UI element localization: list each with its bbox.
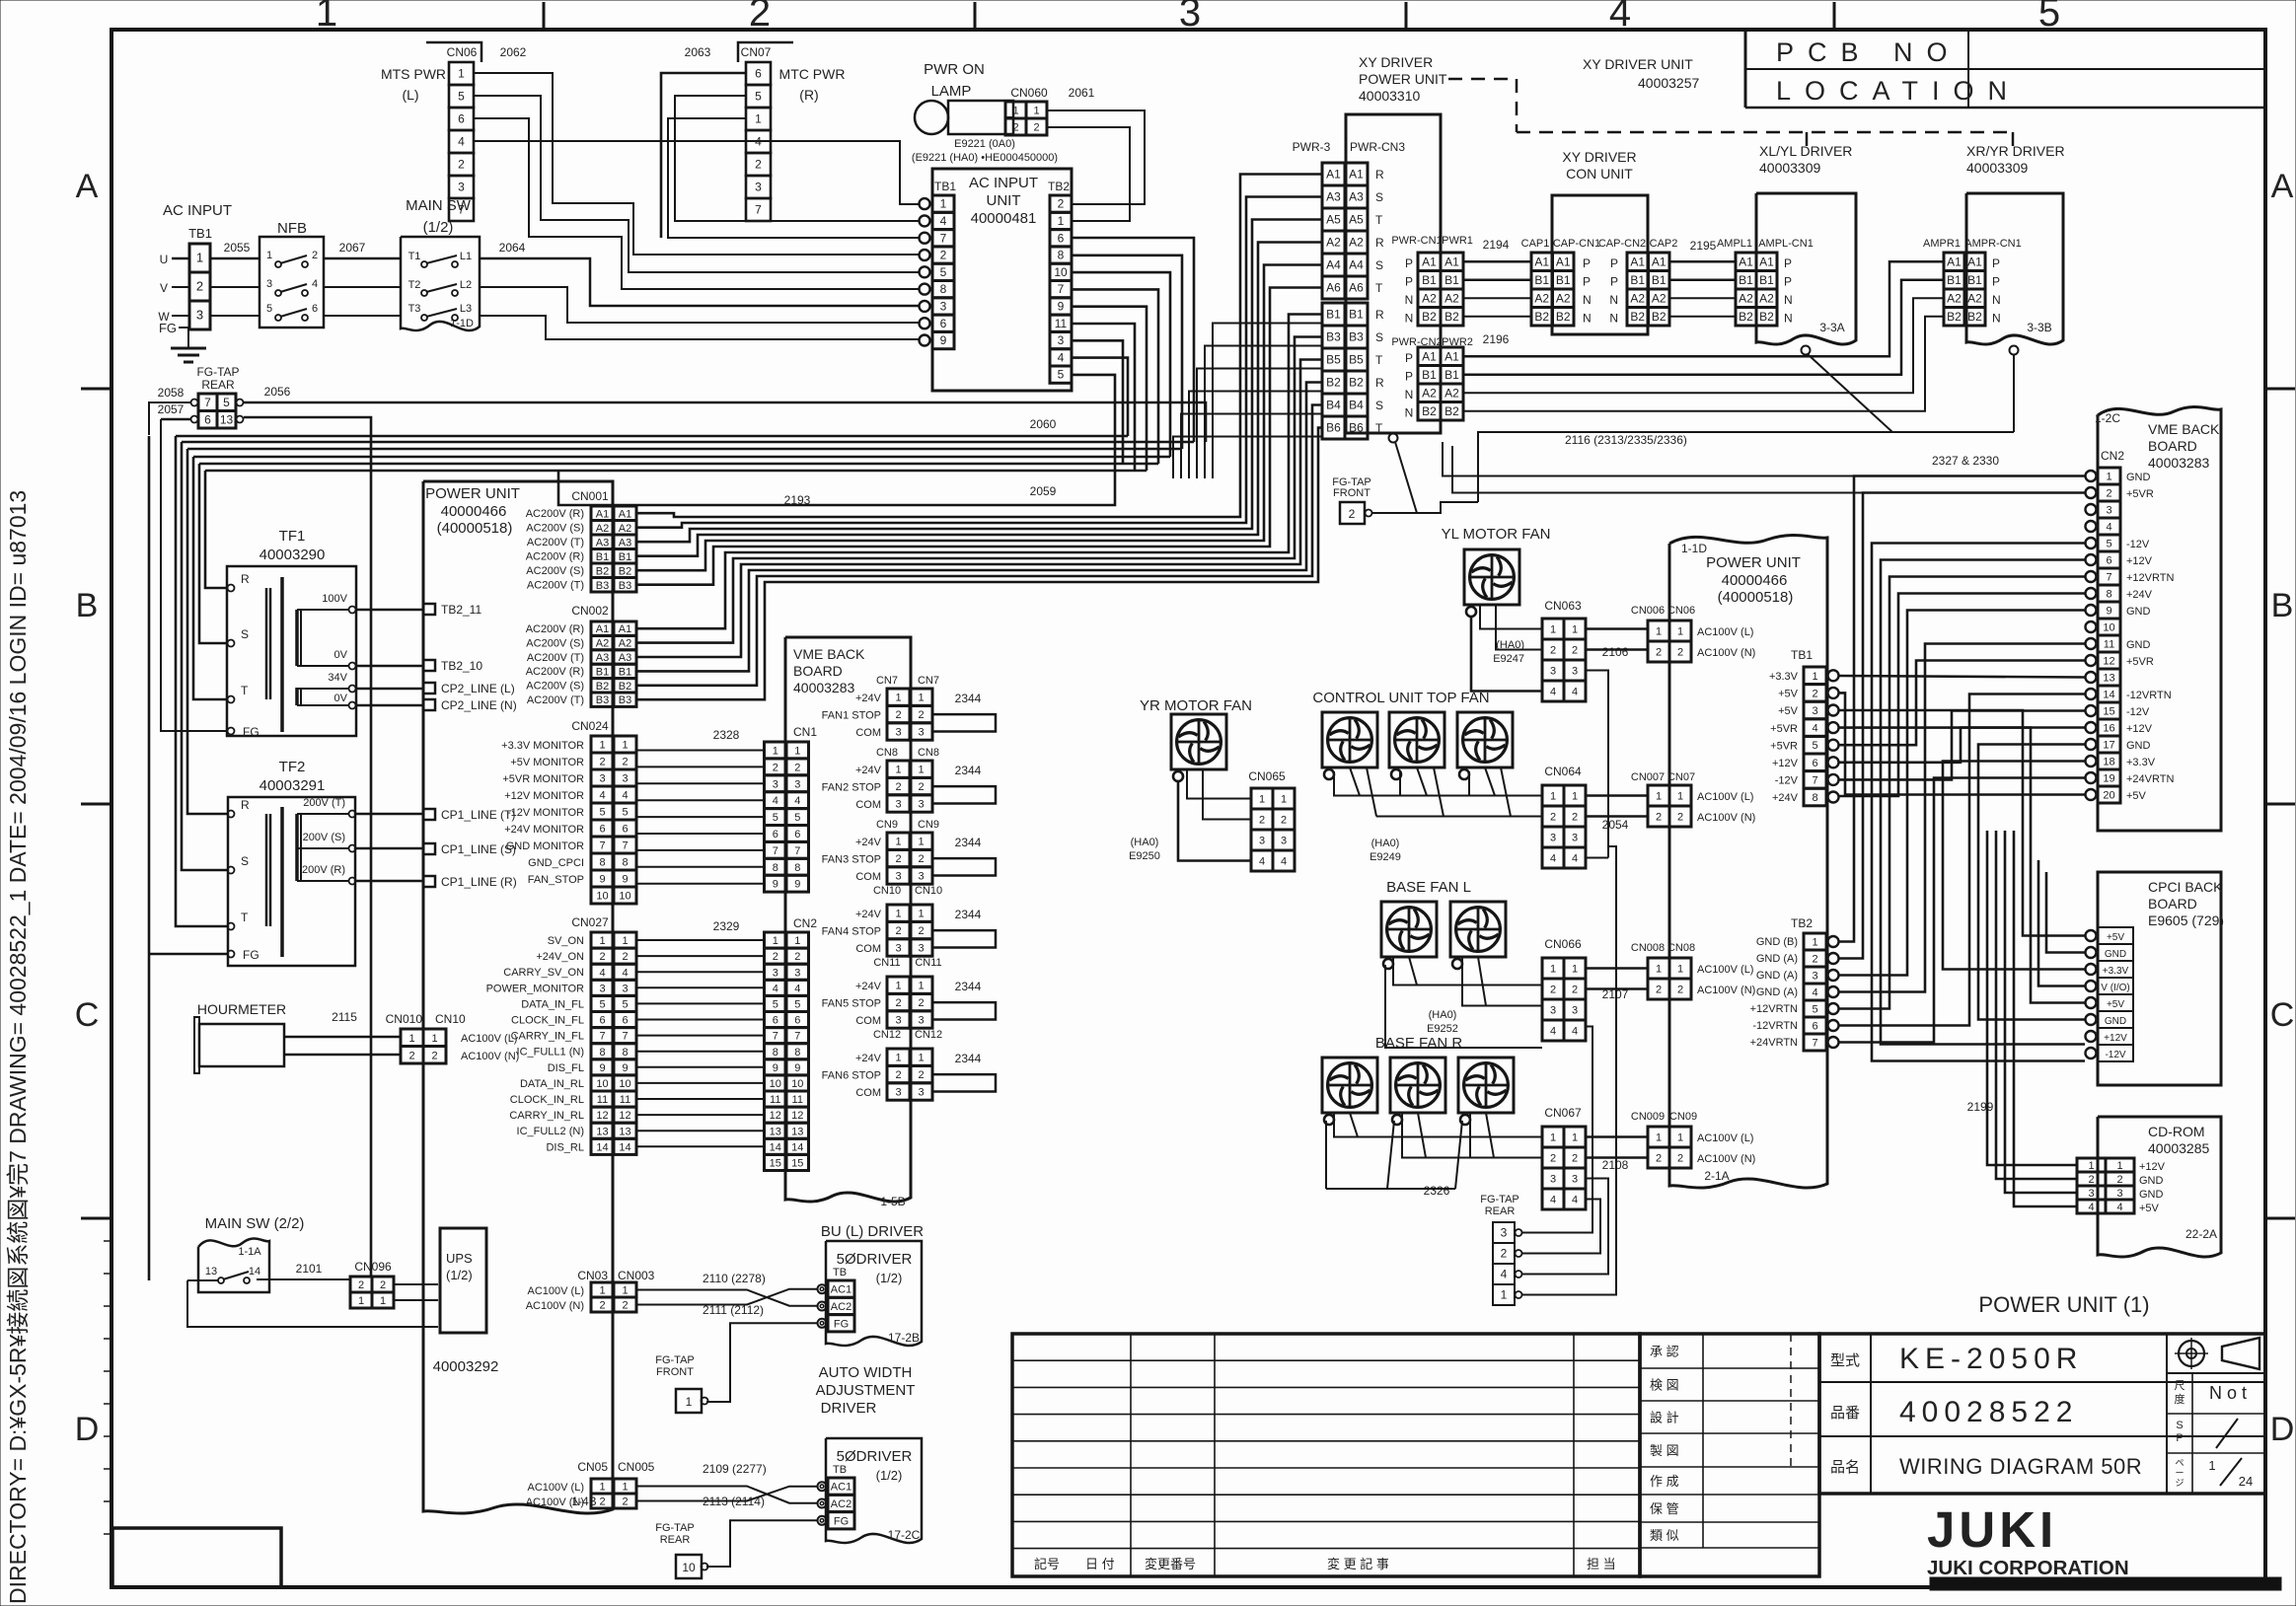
svg-text:CN7: CN7 (918, 675, 939, 687)
svg-text:A2: A2 (1326, 236, 1341, 250)
svg-text:TB: TB (833, 1464, 847, 1476)
svg-text:0V: 0V (334, 649, 348, 661)
svg-text:A1: A1 (1444, 255, 1459, 268)
svg-text:5: 5 (1812, 1004, 1817, 1016)
svg-text:B5: B5 (1349, 353, 1364, 367)
FG circle XL/YL (1802, 346, 1811, 355)
svg-text:COM: COM (855, 727, 881, 739)
wire CN060-1 to TB2-2 (1047, 110, 1145, 204)
svg-text:1: 1 (408, 1033, 414, 1045)
svg-text:3: 3 (755, 181, 762, 194)
wire NFB4-T2 (324, 286, 401, 288)
svg-text:CN060: CN060 (1010, 86, 1048, 100)
svg-text:GND: GND (2126, 639, 2151, 651)
svg-text:9: 9 (773, 879, 778, 891)
svg-text:13: 13 (770, 1126, 781, 1137)
wire NFB6-T3 (324, 315, 401, 317)
svg-text:7: 7 (622, 1031, 628, 1043)
svg-text:1: 1 (918, 909, 924, 920)
svg-text:N o t: N o t (2209, 1383, 2247, 1403)
svg-text:AC1: AC1 (831, 1284, 852, 1296)
wire lamp-CN060 (1005, 116, 1013, 118)
svg-text:AC200V (R): AC200V (R) (526, 551, 584, 563)
svg-text:10: 10 (619, 891, 630, 903)
svg-text:B3: B3 (1349, 330, 1364, 344)
zone tick top (974, 2, 977, 30)
wire CN2-17 GND to CPCI GND (1978, 745, 2085, 1020)
svg-text:3: 3 (2106, 505, 2111, 517)
svg-text:+12VRTN: +12VRTN (1750, 1003, 1798, 1015)
approval table (1640, 1334, 1819, 1576)
svg-text:2: 2 (755, 158, 762, 172)
svg-text:D: D (75, 1411, 100, 1448)
svg-text:2: 2 (794, 762, 800, 773)
svg-text:40000466: 40000466 (441, 503, 507, 520)
svg-text:6: 6 (622, 1015, 628, 1027)
svg-text:A4: A4 (1326, 258, 1341, 272)
svg-text:4: 4 (794, 795, 800, 807)
svg-text:3: 3 (1572, 833, 1578, 844)
svg-text:CN9: CN9 (876, 819, 898, 831)
svg-text:1: 1 (918, 837, 924, 848)
wire TB2-7 east (1072, 289, 1158, 464)
svg-text:CAP1: CAP1 (1521, 238, 1550, 250)
projection symbol cell (2167, 1372, 2265, 1374)
svg-text:40003292: 40003292 (433, 1358, 499, 1375)
svg-text:L2: L2 (460, 279, 472, 291)
svg-text:A1: A1 (1759, 255, 1774, 268)
svg-text:2: 2 (622, 951, 628, 963)
svg-text:B1: B1 (1652, 273, 1666, 287)
svg-text:JUKI CORPORATION: JUKI CORPORATION (1927, 1557, 2129, 1579)
svg-text:(1/2): (1/2) (446, 1268, 473, 1282)
svg-text:CN8: CN8 (876, 747, 898, 759)
svg-text:13: 13 (596, 1126, 608, 1137)
svg-text:FAN3 STOP: FAN3 STOP (822, 853, 881, 865)
svg-text:17-2B: 17-2B (888, 1331, 920, 1345)
svg-text:15: 15 (791, 1157, 803, 1169)
svg-text:A: A (76, 168, 99, 205)
svg-text:2: 2 (622, 1496, 628, 1508)
svg-text:2: 2 (895, 709, 901, 721)
svg-text:DATA_IN_RL: DATA_IN_RL (520, 1078, 584, 1090)
TF2 windings (265, 814, 268, 926)
svg-text:2: 2 (1550, 1153, 1556, 1165)
svg-text:AC200V (T): AC200V (T) (527, 694, 584, 706)
svg-text:5: 5 (1812, 740, 1817, 752)
svg-text:-12VRTN: -12VRTN (2126, 690, 2172, 701)
svg-text:類 似: 類 似 (1650, 1528, 1679, 1543)
svg-text:+24V: +24V (855, 837, 882, 848)
svg-text:2064: 2064 (499, 241, 526, 255)
wire BU FG to FG-TAP FRONT 1 (706, 1323, 817, 1402)
wire CN06-5 (474, 96, 919, 272)
svg-text:GND (A): GND (A) (1756, 970, 1798, 982)
svg-text:A2: A2 (1739, 291, 1753, 305)
svg-text:11: 11 (770, 1094, 780, 1106)
svg-text:AC100V (N): AC100V (N) (1697, 985, 1755, 996)
svg-text:1-5B: 1-5B (880, 1195, 905, 1208)
svg-text:P: P (1405, 256, 1413, 270)
svg-text:T: T (1375, 213, 1383, 227)
wire hourmeter AC drops (446, 1037, 770, 1246)
wire CN2-12 +5VR to TB1-5 (1839, 661, 2085, 746)
svg-text:3: 3 (1179, 0, 1201, 35)
svg-text:2: 2 (599, 757, 605, 768)
svg-text:3: 3 (1572, 666, 1578, 678)
wire CPCI +5V to TB1-3 (1839, 710, 2085, 936)
svg-text:14: 14 (619, 1141, 630, 1153)
svg-text:1: 1 (622, 935, 628, 947)
wire CN06 hook (426, 42, 481, 62)
svg-text:1: 1 (1812, 937, 1817, 949)
svg-text:CN10: CN10 (915, 885, 942, 897)
svg-text:AC2: AC2 (831, 1301, 852, 1313)
svg-text:1: 1 (918, 693, 924, 704)
wire CN2-14 -12VRTN to TB2-6 (1839, 694, 2085, 1026)
svg-text:6: 6 (794, 1015, 800, 1027)
svg-text:D: D (2270, 1411, 2295, 1448)
svg-text:1-1D: 1-1D (450, 318, 474, 329)
svg-text:10: 10 (682, 1561, 696, 1574)
unit CD-ROM 40003285 (2098, 1117, 2221, 1257)
BU driver terminals (828, 1280, 854, 1297)
svg-text:GND: GND (2105, 949, 2126, 960)
svg-text:-12V: -12V (2126, 706, 2150, 718)
svg-text:A1: A1 (1947, 255, 1962, 268)
wire CN064-1 to CN007 (1586, 794, 1648, 797)
wire CN2-20 +5V to TB1-2 (1839, 693, 2085, 794)
unit VME BACK BOARD 40003283 right (2098, 406, 2221, 831)
svg-text:B3: B3 (619, 580, 631, 592)
svg-text:6: 6 (458, 112, 465, 126)
wire CPCI GND stub (2046, 872, 2085, 953)
svg-text:5: 5 (1058, 368, 1065, 382)
svg-text:PWR-CN1: PWR-CN1 (1391, 235, 1442, 247)
svg-text:1: 1 (1656, 1132, 1662, 1144)
svg-text:P: P (1610, 275, 1618, 289)
svg-text:P: P (1583, 275, 1591, 289)
wires control fans bus2 (1376, 816, 1542, 818)
svg-text:7: 7 (622, 840, 628, 852)
svg-text:CN096: CN096 (354, 1260, 392, 1274)
svg-text:FAN6 STOP: FAN6 STOP (822, 1069, 881, 1081)
svg-text:B1: B1 (1444, 273, 1459, 287)
svg-text:YL MOTOR FAN: YL MOTOR FAN (1442, 526, 1551, 543)
svg-text:2: 2 (312, 250, 318, 261)
svg-text:B2: B2 (1326, 376, 1341, 390)
svg-text:BU (L) DRIVER: BU (L) DRIVER (821, 1223, 924, 1240)
svg-text:P: P (1583, 256, 1591, 270)
svg-text:A5: A5 (1349, 213, 1364, 227)
svg-text:2: 2 (1656, 812, 1662, 824)
svg-text:5: 5 (458, 90, 465, 104)
svg-text:14: 14 (791, 1141, 803, 1153)
svg-text:+24V: +24V (855, 1053, 882, 1064)
svg-text:B1: B1 (1326, 308, 1341, 322)
svg-text:B3: B3 (596, 694, 609, 706)
FG circle under XY power unit (1389, 434, 1398, 443)
wire CN065 bus east (1295, 798, 1334, 800)
svg-text:A1: A1 (1422, 349, 1437, 363)
svg-text:3: 3 (773, 967, 778, 979)
wire 2055 (210, 257, 259, 260)
svg-text:+12VRTN: +12VRTN (2126, 572, 2174, 584)
svg-text:6: 6 (599, 1015, 605, 1027)
svg-text:AC100V (L): AC100V (L) (1697, 1132, 1753, 1144)
svg-text:CP1_LINE (R): CP1_LINE (R) (441, 875, 517, 889)
svg-text:1: 1 (2088, 1160, 2094, 1172)
svg-text:A2: A2 (1556, 291, 1571, 305)
svg-text:B2: B2 (1534, 310, 1549, 324)
svg-text:2: 2 (431, 1050, 437, 1061)
wire W-NFB (210, 315, 259, 317)
svg-text:2062: 2062 (500, 45, 527, 59)
svg-text:GND: GND (2126, 472, 2151, 483)
svg-text:1: 1 (1572, 1132, 1578, 1144)
svg-text:5: 5 (794, 998, 800, 1010)
svg-text:CN065: CN065 (1248, 769, 1286, 783)
svg-text:AC100V (L): AC100V (L) (528, 1482, 584, 1494)
svg-text:A2: A2 (1947, 291, 1962, 305)
svg-text:11: 11 (1055, 317, 1068, 330)
wire AUTO WIDTH FG to FG-TAP REAR 10 (706, 1520, 817, 1567)
svg-text:S: S (1375, 258, 1383, 272)
svg-text:CARRY_IN_RL: CARRY_IN_RL (509, 1110, 584, 1122)
svg-text:FG-TAP: FG-TAP (1480, 1194, 1519, 1205)
svg-text:2: 2 (1572, 985, 1578, 996)
svg-text:CN024: CN024 (571, 719, 609, 733)
svg-text:B2: B2 (619, 565, 631, 577)
svg-text:A6: A6 (1326, 281, 1341, 295)
svg-text:AC200V (T): AC200V (T) (527, 537, 584, 548)
zone tick right (2265, 388, 2295, 391)
zone tick top (1833, 2, 1836, 30)
svg-text:2: 2 (2116, 1174, 2122, 1186)
svg-text:PWR ON: PWR ON (924, 61, 985, 78)
wire TB2-3 east (1072, 340, 1123, 464)
svg-text:1: 1 (458, 67, 465, 81)
svg-text:3: 3 (2116, 1188, 2122, 1200)
svg-text:2063: 2063 (685, 45, 711, 59)
svg-text:AC100V (N): AC100V (N) (1697, 812, 1755, 824)
svg-text:L3: L3 (460, 303, 472, 315)
stub TB2_11 (423, 604, 435, 615)
svg-text:PWR1: PWR1 (1442, 235, 1473, 247)
wire CN064-4 link (1586, 857, 1608, 859)
svg-text:6: 6 (1812, 758, 1817, 769)
svg-text:5ØDRIVER: 5ØDRIVER (837, 1251, 913, 1268)
svg-text:品番: 品番 (1830, 1405, 1860, 1422)
svg-text:14: 14 (249, 1266, 260, 1277)
svg-text:6: 6 (2106, 555, 2111, 567)
svg-text:A1: A1 (1630, 255, 1645, 268)
svg-text:POWER UNIT: POWER UNIT (425, 485, 520, 502)
svg-text:CN09: CN09 (1669, 1111, 1697, 1123)
svg-text:AC200V (R): AC200V (R) (526, 508, 584, 520)
svg-text:6: 6 (755, 67, 762, 81)
svg-text:BOARD: BOARD (2148, 896, 2197, 912)
svg-text:3: 3 (1550, 833, 1556, 844)
svg-text:1-2C: 1-2C (2095, 411, 2120, 425)
svg-text:1: 1 (1012, 106, 1018, 117)
svg-text:CN7: CN7 (876, 675, 898, 687)
svg-text:4: 4 (1609, 0, 1631, 35)
svg-text:A2: A2 (1444, 386, 1459, 400)
wire TB2-11 east (1072, 324, 1135, 471)
svg-text:2: 2 (918, 925, 924, 937)
svg-text:6: 6 (773, 1015, 778, 1027)
svg-text:4: 4 (1550, 1026, 1556, 1038)
wire main sw 13 loop (187, 1279, 219, 1281)
svg-text:記号: 記号 (1034, 1557, 1060, 1571)
svg-text:V: V (160, 281, 168, 295)
svg-text:40003283: 40003283 (793, 680, 855, 695)
wire bundle 2193-B (636, 315, 1322, 629)
svg-text:5: 5 (266, 303, 272, 315)
svg-text:2-1A: 2-1A (1704, 1169, 1729, 1183)
svg-text:R: R (1375, 308, 1384, 322)
svg-text:POWER UNIT (1): POWER UNIT (1) (1978, 1292, 2149, 1317)
svg-text:A3: A3 (1326, 190, 1341, 204)
svg-text:+24VRTN: +24VRTN (2126, 773, 2174, 785)
svg-text:B1: B1 (596, 666, 609, 678)
svg-text:2: 2 (940, 249, 947, 262)
svg-text:VME BACK: VME BACK (2148, 421, 2220, 437)
svg-text:FG: FG (243, 725, 259, 739)
svg-text:B2: B2 (619, 681, 631, 693)
svg-text:FAN_STOP: FAN_STOP (528, 874, 584, 886)
svg-text:3: 3 (918, 1015, 924, 1027)
svg-text:MAIN SW (2/2): MAIN SW (2/2) (205, 1215, 305, 1232)
svg-text:R: R (241, 572, 250, 586)
svg-text:2: 2 (895, 1069, 901, 1081)
svg-text:B1: B1 (1556, 273, 1571, 287)
unit POWER UNIT 40000466 (40000518) (423, 481, 613, 1513)
svg-text:TB2_10: TB2_10 (441, 659, 482, 673)
wires CN065 east to control fan bus (1273, 844, 1542, 881)
svg-text:1: 1 (940, 197, 947, 211)
svg-text:5ØDRIVER: 5ØDRIVER (837, 1448, 913, 1465)
svg-text:40003283: 40003283 (2148, 455, 2210, 471)
svg-text:+5V: +5V (2139, 1203, 2160, 1214)
svg-text:3: 3 (266, 278, 272, 290)
svg-text:2: 2 (773, 762, 778, 773)
approval dashed col (1790, 1334, 1792, 1467)
svg-text:-12VRTN: -12VRTN (1752, 1020, 1798, 1032)
svg-text:+5VR: +5VR (1770, 740, 1798, 752)
wire 2199 CD-ROM +12V (1987, 831, 2077, 1165)
svg-text:+12V: +12V (2126, 723, 2153, 735)
wire CPCI +5V2 to TB1-4 (1839, 728, 2085, 1003)
svg-text:4: 4 (1501, 1268, 1508, 1281)
svg-text:200V (T): 200V (T) (303, 797, 345, 809)
svg-text:1: 1 (266, 250, 272, 261)
wire stub 2327 top (1442, 442, 1444, 454)
svg-text:CN2: CN2 (2101, 449, 2124, 463)
JUKI logo (1927, 1501, 2129, 1579)
svg-text:4: 4 (755, 135, 762, 149)
svg-text:+5V: +5V (1778, 689, 1799, 700)
svg-text:尺: 尺 (2175, 1380, 2185, 1392)
svg-text:+24V: +24V (1772, 792, 1799, 804)
first angle projection symbol (2179, 1341, 2204, 1366)
svg-text:2055: 2055 (224, 241, 251, 255)
svg-text:4: 4 (1550, 853, 1556, 865)
svg-text:+5V: +5V (2107, 932, 2124, 943)
svg-text:B4: B4 (1349, 399, 1364, 412)
svg-text:N: N (1784, 293, 1793, 307)
svg-text:3: 3 (895, 943, 901, 955)
wire CN07 hook (738, 42, 793, 62)
svg-text:10: 10 (770, 1078, 781, 1090)
svg-text:6: 6 (794, 829, 800, 840)
svg-text:IC_FULL2 (N): IC_FULL2 (N) (517, 1126, 584, 1137)
svg-text:2: 2 (622, 757, 628, 768)
svg-text:CN03: CN03 (577, 1269, 608, 1282)
svg-text:+12V: +12V (2139, 1161, 2166, 1173)
zone tick left (81, 803, 111, 806)
svg-text:CON UNIT: CON UNIT (1566, 166, 1633, 182)
svg-text:AC100V (L): AC100V (L) (1697, 791, 1753, 803)
svg-text:6: 6 (940, 317, 947, 330)
svg-text:DIS_FL: DIS_FL (548, 1062, 584, 1074)
wire FG join (1417, 502, 1478, 513)
wire TF2 200VR to CP1R (356, 880, 423, 883)
svg-text:E9221 (0A0): E9221 (0A0) (954, 138, 1015, 150)
svg-text:6: 6 (312, 303, 318, 315)
svg-text:AC100V (N): AC100V (N) (461, 1051, 519, 1062)
svg-text:1: 1 (773, 935, 778, 947)
svg-text:CN003: CN003 (618, 1269, 655, 1282)
svg-text:2: 2 (1501, 1247, 1508, 1261)
wire TB2-10 east (1072, 272, 1170, 457)
svg-text:+5VR: +5VR (2126, 656, 2154, 668)
svg-text:3: 3 (1550, 1174, 1556, 1186)
svg-text:(40000518): (40000518) (1718, 589, 1794, 606)
svg-text:1: 1 (1656, 626, 1662, 638)
svg-text:8: 8 (622, 857, 628, 869)
svg-text:A1: A1 (1534, 255, 1549, 268)
svg-text:S: S (2176, 1420, 2183, 1431)
svg-text:4: 4 (622, 790, 628, 802)
svg-text:9: 9 (773, 1062, 778, 1074)
svg-text:2344: 2344 (955, 980, 982, 993)
svg-text:A2: A2 (1444, 291, 1459, 305)
svg-text:CLOCK_IN_RL: CLOCK_IN_RL (510, 1094, 584, 1106)
svg-text:+5VR: +5VR (2126, 488, 2154, 500)
svg-text:CAP-CN1: CAP-CN1 (1553, 238, 1600, 250)
svg-text:B2: B2 (1422, 310, 1437, 324)
wire CN060-2 to TB2-1 (1047, 127, 1130, 221)
ruler ticks left border (104, 1240, 111, 1242)
svg-text:AMPL-CN1: AMPL-CN1 (1758, 238, 1814, 250)
svg-text:5: 5 (622, 998, 628, 1010)
svg-text:B2: B2 (1739, 310, 1753, 324)
svg-text:A1: A1 (1326, 168, 1341, 182)
svg-text:2344: 2344 (955, 836, 982, 849)
svg-text:CP1_LINE (T): CP1_LINE (T) (441, 808, 515, 822)
svg-text:E9605 (729): E9605 (729) (2148, 912, 2224, 928)
svg-text:FG: FG (243, 948, 259, 962)
svg-text:COM: COM (855, 799, 881, 811)
wire CN07-5 (675, 96, 919, 221)
svg-text:11: 11 (597, 1094, 608, 1106)
svg-text:4: 4 (1550, 1195, 1556, 1206)
svg-text:2: 2 (918, 997, 924, 1009)
svg-text:2: 2 (599, 1300, 605, 1312)
svg-text:12: 12 (2103, 656, 2114, 668)
